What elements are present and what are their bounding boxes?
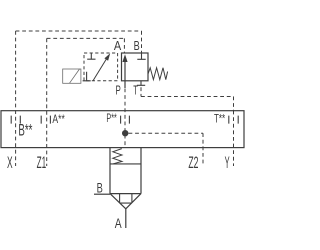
node X vertical line xyxy=(15,31,17,166)
spring (main valve) xyxy=(113,149,122,164)
blocked port T symbol xyxy=(137,81,145,86)
solenoid symbol xyxy=(63,69,81,83)
wire top edge from X to B xyxy=(16,30,142,32)
node Z1 vertical line xyxy=(46,38,48,166)
orifice ticks A xyxy=(41,116,50,124)
wire P pilot line down to main valve xyxy=(124,89,126,148)
svg-text:Y: Y xyxy=(225,153,230,172)
main logic valve body xyxy=(110,148,141,194)
spring (pilot valve, right) xyxy=(148,68,168,80)
wire T drain down xyxy=(140,87,142,96)
poppet seat line xyxy=(110,193,141,195)
spring chamber divider xyxy=(110,163,141,165)
svg-text:B**: B** xyxy=(18,120,32,139)
svg-text:A: A xyxy=(115,215,122,231)
junction node P dot xyxy=(122,130,128,136)
svg-text:T: T xyxy=(133,83,138,98)
blocked port B symbol xyxy=(137,53,145,59)
node Y vertical line xyxy=(233,111,235,166)
svg-text:A: A xyxy=(114,38,122,53)
port B line xyxy=(94,193,110,195)
blocked port symbol (dashed square top) xyxy=(87,53,95,59)
svg-text:Z2: Z2 xyxy=(188,153,198,172)
orifice ticks P xyxy=(121,116,130,124)
wire: pilot line X up-and-over (dashed) xyxy=(16,31,234,166)
svg-text:A**: A** xyxy=(52,112,65,126)
node Z2 vertical line xyxy=(202,133,204,166)
port A line xyxy=(125,209,127,228)
svg-text:B: B xyxy=(97,180,103,196)
pilot valve position square (dashed, optional) xyxy=(84,53,118,81)
svg-text:B: B xyxy=(134,38,140,53)
svg-text:P**: P** xyxy=(106,111,117,125)
svg-text:X: X xyxy=(7,153,13,172)
wire Y drop to cover xyxy=(233,97,235,111)
svg-text:Z1: Z1 xyxy=(37,153,47,172)
svg-text:P: P xyxy=(116,83,121,98)
pilot valve position square (solid, P to A) xyxy=(122,53,149,81)
poppet plunger xyxy=(120,194,132,204)
wire B drop to pilot valve xyxy=(141,31,143,53)
orifice ticks X xyxy=(11,116,20,124)
poppet seat V xyxy=(110,194,141,209)
wire T drain horizontal to Y xyxy=(141,96,234,98)
switching arrow (diagonal) xyxy=(93,58,107,81)
wire inner top edge Z1 to A xyxy=(47,37,125,39)
control cover body (main rectangle) xyxy=(1,111,244,148)
wire Z2 branch horizontal from node xyxy=(129,132,204,134)
orifice ticks T xyxy=(229,116,238,124)
blocked port symbol (dashed square bottom) xyxy=(83,72,91,81)
wire A drop to pilot valve xyxy=(123,38,125,52)
svg-text:T**: T** xyxy=(214,111,225,125)
arrow P to A in right square xyxy=(124,60,126,88)
